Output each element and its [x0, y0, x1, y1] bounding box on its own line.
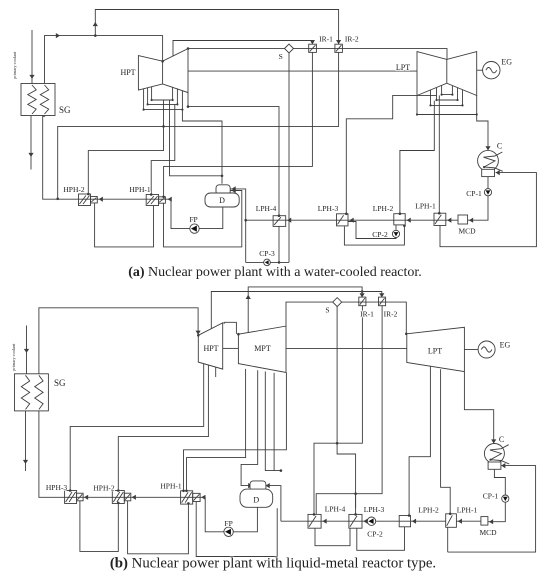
flow arrow into LPH-4 (b): [323, 519, 327, 524]
node LPT admission (b): [405, 333, 408, 336]
svg-text:HPH-1: HPH-1: [160, 482, 182, 491]
svg-text:LPH-3: LPH-3: [318, 204, 339, 213]
flow arrow into IR-1 (a): [310, 40, 315, 44]
svg-text:LPH-4: LPH-4: [325, 504, 346, 513]
wire: IR-1 drain to LPH-4 (b): [314, 306, 362, 515]
svg-text:HPH-1: HPH-1: [129, 185, 151, 194]
wire: FP discharge riser (b): [205, 497, 224, 532]
wire: condensate riser to deaerator (b): [267, 486, 281, 522]
wire: HPH-1 drain to deaerator (b): [196, 502, 277, 557]
wire: HPH-1 drain to deaerator (a): [164, 191, 242, 247]
pump CP-1 (b): [502, 495, 509, 502]
wire: LPH drain bypass U (a): [344, 226, 404, 246]
svg-text:LPH-4: LPH-4: [256, 204, 277, 213]
wire: LPH-4 drain (a): [278, 226, 280, 262]
wire: LPT shaft to EG (a): [477, 69, 483, 71]
node: live steam branch (a): [94, 34, 97, 37]
flow arrow into LPH-1 (b): [458, 519, 462, 524]
node LPT bracket corner (a): [456, 99, 458, 101]
svg-text:IR-1: IR-1: [319, 35, 333, 44]
wire: deaerator outlet to FP (a): [199, 207, 223, 229]
wire: deaerator outlet to FP (b): [233, 507, 257, 532]
flow arrow into HPH-3 (b): [84, 495, 88, 500]
wire: LPT exhaust to condenser (b): [464, 372, 493, 444]
wire: MPT extraction drop (b): [273, 373, 275, 471]
svg-text:CP-2: CP-2: [367, 529, 383, 538]
wire: main steam SG to HPT (a): [45, 36, 163, 84]
wire: feedwater line HPH-1 HPH-2 to SG (a): [43, 116, 171, 200]
node IR drain branch (b): [354, 492, 357, 495]
svg-text:C: C: [497, 142, 502, 151]
node SG feed inlet (a): [43, 114, 46, 117]
wire: HPT right edge extension (a): [187, 93, 189, 107]
flow arrow primary inlet (a): [29, 75, 34, 79]
separator S (a): [285, 44, 294, 53]
heater LPH-4 (b): [308, 514, 321, 528]
flow arrow into IR-2 (a): [336, 40, 341, 44]
flow arrow primary outlet (b): [23, 460, 28, 464]
flow arrow main steam (a): [56, 33, 60, 38]
wire: HPT tap to IR-2 (b): [211, 292, 381, 334]
svg-text:MCD: MCD: [458, 227, 476, 236]
svg-text:MCD: MCD: [479, 528, 497, 537]
svg-text:(a) Nuclear power plant with a: (a) Nuclear power plant with a water-coo…: [128, 265, 422, 280]
flow arrow into LPH-4 (a): [287, 218, 291, 223]
node IR feed crossing (b): [361, 290, 364, 293]
wire: CP-3 header (a): [246, 261, 289, 263]
flow arrow into MCD (a): [469, 218, 473, 223]
flow arrow into HPH-1 (b): [201, 495, 205, 500]
wire: LPH-3 drain to CP-2 (a): [348, 222, 396, 239]
node HPH-2 steam inlet (b): [117, 489, 120, 492]
node LPH-4 steam inlet (b): [313, 513, 316, 516]
node LPT bracket corner (a): [416, 113, 418, 115]
pump CP-2 (a): [392, 230, 399, 237]
wire: LPT shaft to EG (b): [464, 349, 478, 351]
svg-text:primary coolant: primary coolant: [12, 51, 17, 79]
generator EG (b): [478, 341, 495, 358]
flow arrow into condenser (a): [485, 146, 490, 150]
node HPH-1 steam inlet (b): [182, 490, 185, 493]
wire: LPT extraction to LPH-3 (a): [346, 95, 436, 213]
reheater IR-1 (b): [359, 297, 366, 306]
heater LPH-1 (b): [446, 514, 457, 528]
node LPH-1 steam inlet (b): [449, 513, 452, 516]
svg-text:primary coolant: primary coolant: [11, 343, 16, 371]
box MCD (a): [458, 215, 468, 224]
svg-text:S: S: [325, 305, 329, 314]
wire: main steam SG to HPT (b): [39, 308, 198, 374]
turbine MPT (b): [238, 326, 286, 372]
node HPT bracket corner (a): [176, 103, 178, 105]
node HPT exhaust header (a): [187, 105, 190, 108]
wire: HPH-2 drain to HPH-1 (b): [128, 501, 189, 554]
heater HPH-3 (b): [65, 491, 84, 504]
node HPT admission (a): [161, 60, 164, 63]
svg-text:IR-2: IR-2: [345, 35, 359, 44]
node LPH-2 steam inlet (a): [399, 212, 402, 215]
wire: LPH-1 drain (b): [447, 527, 449, 552]
node HPH-1 drain-cooler inlet (a): [162, 196, 165, 199]
flow arrow into deaerator right (b): [266, 483, 270, 488]
svg-text:IR-2: IR-2: [384, 310, 398, 319]
node LPT bracket corner (a): [435, 99, 437, 101]
turbine LPT (b): [407, 327, 465, 371]
svg-text:LPH-1: LPH-1: [415, 202, 436, 211]
heater HPH-1 (b): [181, 491, 200, 504]
wire: MPT tap to IR-1 (b): [248, 287, 362, 332]
wire: LPT exhaust to condenser (a): [477, 115, 488, 151]
svg-text:LPH-1: LPH-1: [457, 506, 478, 515]
node HPT inlet corner (b): [197, 334, 200, 337]
svg-text:CP-3: CP-3: [259, 249, 275, 258]
node HPT bracket corner (a): [172, 99, 174, 101]
wire: HPT extraction to HPH-3 (b): [70, 364, 204, 491]
condenser C (a): [478, 150, 503, 176]
wire: MPT extraction to HPH-1 drain cooler (b): [187, 369, 246, 491]
svg-text:MPT: MPT: [254, 344, 271, 353]
wire: LPH-1 drain loop to condenser (a): [440, 173, 536, 247]
flow arrow into IR-1 (b): [360, 293, 365, 297]
wire: main condensate line through LPH train (b): [281, 520, 446, 522]
deaerator D (a): [205, 185, 239, 207]
wire: LPT extraction to LPH-2 (b): [409, 367, 430, 516]
wire: MPT extraction joins condensate riser (b): [265, 372, 281, 471]
pump CP-1 (a): [484, 189, 491, 196]
node LPH-3 steam inlet (b): [354, 513, 357, 516]
flow arrow into HPT (b): [196, 331, 201, 335]
flow arrow MPT tap riser (b): [246, 295, 251, 299]
wire: LPT extraction to LPH-1 (b): [441, 369, 451, 514]
heater LPH-2 (b): [399, 516, 410, 527]
wire: condensate riser to deaerator (a): [230, 189, 246, 263]
wire: separator drain to CP-3 (a): [288, 52, 290, 262]
wire: main condensate line LPH train (a): [246, 219, 458, 221]
deaerator D (b): [240, 481, 273, 507]
flow arrow into LPH-2 (a): [407, 218, 411, 223]
wire: MPT extraction to deaerator left (b): [241, 370, 258, 485]
turbine LPT (a): [417, 52, 477, 96]
node HPH-2 steam inlet (a): [87, 193, 90, 196]
node at LPH-4 inlet (a): [278, 214, 281, 217]
wire: separator drain to LPH-3 (b): [337, 306, 356, 514]
wire: IR-2 drain to LPH-4 (b): [316, 306, 382, 515]
wire: FP discharge riser (a): [171, 199, 190, 228]
wire: HPT extraction to HPH-2 (a): [88, 100, 163, 194]
heater HPH-2 (b): [112, 491, 131, 504]
wire: primary coolant outlet (b): [25, 411, 27, 472]
node LPT bracket corner (a): [461, 104, 463, 106]
flow arrow live steam riser (a): [93, 22, 98, 26]
pump CP-2 (b): [367, 517, 375, 525]
pump FP (b): [224, 527, 233, 536]
wire: primary coolant inlet (b): [26, 326, 28, 375]
flow arrow into LPH-3 (a): [350, 218, 354, 223]
wire: IR-2 drain to feed line (a): [58, 52, 339, 198]
svg-text:FP: FP: [189, 215, 197, 224]
wire: HPT to MPT steam lead (b): [224, 322, 236, 334]
node deaerator feed junction (a): [221, 175, 224, 178]
wire: HPT exhaust through S, IR-1, IR-2 to LPT (a): [188, 49, 447, 60]
wire: LPT extraction to LPH-2 (a): [400, 101, 434, 214]
wire: primary coolant inlet (a): [31, 30, 33, 84]
turbine HPT (a): [138, 49, 188, 93]
node LPT bracket corner (a): [476, 113, 478, 115]
steam generator SG (a): [21, 84, 55, 116]
wire: LPH drain loop to condenser (b): [448, 466, 536, 552]
flow arrow into IR-2 (b): [379, 293, 384, 297]
node S drain crossing (b): [336, 442, 339, 445]
turbine HPT (b): [198, 323, 222, 369]
steam generator SG (b): [15, 374, 49, 411]
wire: LPT extraction to LPH-1 (a): [438, 95, 440, 213]
flow arrow into MCD (b): [489, 519, 493, 524]
node LPH-2 drain corner (a): [403, 225, 406, 228]
generator EG (a): [483, 61, 500, 78]
svg-text:CP-1: CP-1: [466, 189, 482, 198]
node feedwater junction (a): [56, 198, 59, 201]
wire: condensate C to CP-1 to MCD (a): [468, 176, 488, 220]
heater LPH-3 (b): [349, 514, 362, 528]
wire: condensate C to CP-1 to MCD (b): [488, 470, 506, 522]
wire: HPT extraction joins deaerator feed (a): [170, 100, 223, 176]
wire: LPH-4 to LPH-3 drain U (b): [315, 528, 350, 546]
node HPT bracket corner (a): [143, 109, 145, 111]
pump CP-3 (a): [264, 259, 271, 266]
node HPH-1 steam inlet (a): [150, 193, 153, 196]
separator S (b): [333, 298, 342, 307]
wire: crossover MPT to LPT (b): [286, 347, 407, 349]
flow arrow into LPH-3 (b): [363, 519, 367, 524]
node LPT bracket corner (a): [451, 94, 453, 96]
svg-text:CP-2: CP-2: [372, 230, 388, 239]
svg-text:S: S: [279, 52, 283, 61]
wire: HPT tap to IR-1 (a): [173, 41, 312, 58]
svg-text:FP: FP: [224, 519, 232, 528]
svg-text:C: C: [499, 435, 504, 444]
wire: HPT extraction to HPH-2 (b): [118, 365, 208, 490]
wire: MCD to LPH-1 (b): [456, 520, 481, 522]
wire: primary coolant outlet (a): [30, 116, 32, 170]
wire: MPT exhaust extraction to HPH-1 (b): [184, 372, 287, 490]
svg-text:HPT: HPT: [120, 68, 135, 77]
node HPH-1 cooler inlet (b): [185, 490, 188, 493]
wire: live steam to IR-2 (a): [95, 10, 338, 45]
wire: feedwater line HPH train to SG (b): [39, 411, 205, 498]
heater LPH-4 (a): [273, 216, 286, 227]
svg-text:SG: SG: [54, 378, 66, 388]
node LPH-3 steam inlet (a): [345, 213, 348, 216]
reheater IR-1 (a): [309, 44, 317, 52]
svg-text:LPH-3: LPH-3: [364, 505, 385, 514]
HPT extraction brackets (a): [144, 87, 183, 110]
svg-text:HPT: HPT: [203, 344, 218, 353]
node MPT inlet corner (b): [237, 333, 240, 336]
flow arrow into deaerator left (b): [248, 483, 252, 488]
node HPT bracket corner (a): [151, 99, 153, 101]
node on IR-2 drain line (a): [162, 125, 165, 128]
node LPT bracket corner (a): [441, 94, 443, 96]
wire: HPH-3 drain to HPH-2 (b): [80, 501, 118, 551]
node on condensate riser (b): [280, 469, 283, 472]
reheater IR-2 (b): [379, 297, 386, 306]
wire: HPT-MPT shaft (b): [223, 347, 239, 349]
node HPH-1 drain inlet (b): [187, 502, 190, 505]
svg-text:HPH-2: HPH-2: [63, 185, 85, 194]
flow arrow drain into hotwell (b): [501, 463, 505, 468]
svg-text:LPH-2: LPH-2: [373, 204, 394, 213]
pump FP (a): [190, 224, 199, 233]
wire: extraction to LPH-4 (a): [188, 107, 279, 216]
reheater IR-2 (a): [335, 44, 343, 52]
flow arrow primary outlet (a): [28, 153, 33, 157]
wire: HPT stub extraction (b): [215, 367, 217, 377]
flow arrow HPH drains into deaerator (a): [232, 188, 236, 193]
wire: HPT extraction to HPH-1 (a): [151, 104, 175, 194]
flow arrow into LPH-2 (b): [412, 519, 416, 524]
svg-text:HPH-2: HPH-2: [93, 484, 115, 493]
wire: crossover HPT to LPT (a): [188, 70, 417, 72]
node above IR-1 (a): [311, 40, 314, 43]
flow arrow into deaerator (a): [232, 186, 236, 191]
svg-text:LPT: LPT: [428, 346, 442, 355]
flow arrow primary inlet (b): [24, 349, 29, 353]
svg-text:EG: EG: [500, 341, 511, 350]
svg-text:HPH-3: HPH-3: [46, 483, 68, 492]
node HPT exhaust corner (a): [187, 47, 190, 50]
wire: CP-2 discharge to LPH-2 (a): [395, 225, 397, 230]
node LPT bracket corner (a): [429, 104, 431, 106]
svg-text:LPH-2: LPH-2: [418, 506, 439, 515]
svg-text:D: D: [253, 496, 259, 505]
node LPH-2 steam inlet (b): [408, 514, 411, 517]
svg-text:SG: SG: [59, 105, 71, 115]
svg-text:D: D: [219, 196, 225, 205]
box MCD (b): [481, 517, 488, 526]
flow arrow into HPH-1 (a): [168, 197, 172, 202]
node HPH-3 steam inlet (b): [69, 489, 72, 492]
flow arrow into condenser (b): [491, 439, 496, 443]
flow arrow drain into hotwell (a): [496, 170, 500, 175]
flow arrow into HPH-2 (b): [132, 495, 136, 500]
svg-text:(b) Nuclear power plant with l: (b) Nuclear power plant with liquid-meta…: [110, 556, 436, 572]
heater HPH-2 (a): [79, 194, 98, 206]
heater HPH-1 (a): [146, 195, 165, 206]
svg-text:CP-1: CP-1: [483, 492, 499, 501]
heater LPH-2 (a): [394, 214, 405, 225]
node LPH-4 drain joins CP-3 header (a): [278, 261, 281, 264]
node HPT bracket corner (a): [181, 109, 183, 111]
heater LPH-3 (a): [337, 214, 349, 226]
wire: HPH-2 drain cascade to HPH-1 (a): [95, 203, 154, 247]
node main condensate joins riser (a): [244, 219, 247, 222]
svg-text:EG: EG: [501, 58, 512, 67]
node LPH-1 steam inlet (a): [438, 212, 441, 215]
flow arrow into HPH-2 (a): [99, 197, 103, 202]
node HPH-2 drain inlet (b): [117, 502, 120, 505]
node HPT bracket corner (a): [147, 103, 149, 105]
LPT extraction brackets and hood (a): [417, 85, 477, 114]
wire: LPH-3 to LPH-2 drain U (b): [357, 527, 405, 551]
heater LPH-1 (a): [434, 213, 446, 225]
svg-text:LPT: LPT: [396, 63, 410, 72]
wire: IR-1 drain to HPH-1 (a): [164, 52, 313, 196]
condenser C (b): [484, 444, 509, 470]
svg-text:IR-1: IR-1: [360, 310, 374, 319]
flow arrow into LPH-1 (a): [447, 218, 451, 223]
wire: branch to LPH-3 (b): [355, 494, 357, 508]
wire: HPT extraction to deaerator (a): [182, 110, 222, 184]
wire: MPT exhaust through S IR-1 IR-2 to LPT (b): [286, 302, 406, 334]
